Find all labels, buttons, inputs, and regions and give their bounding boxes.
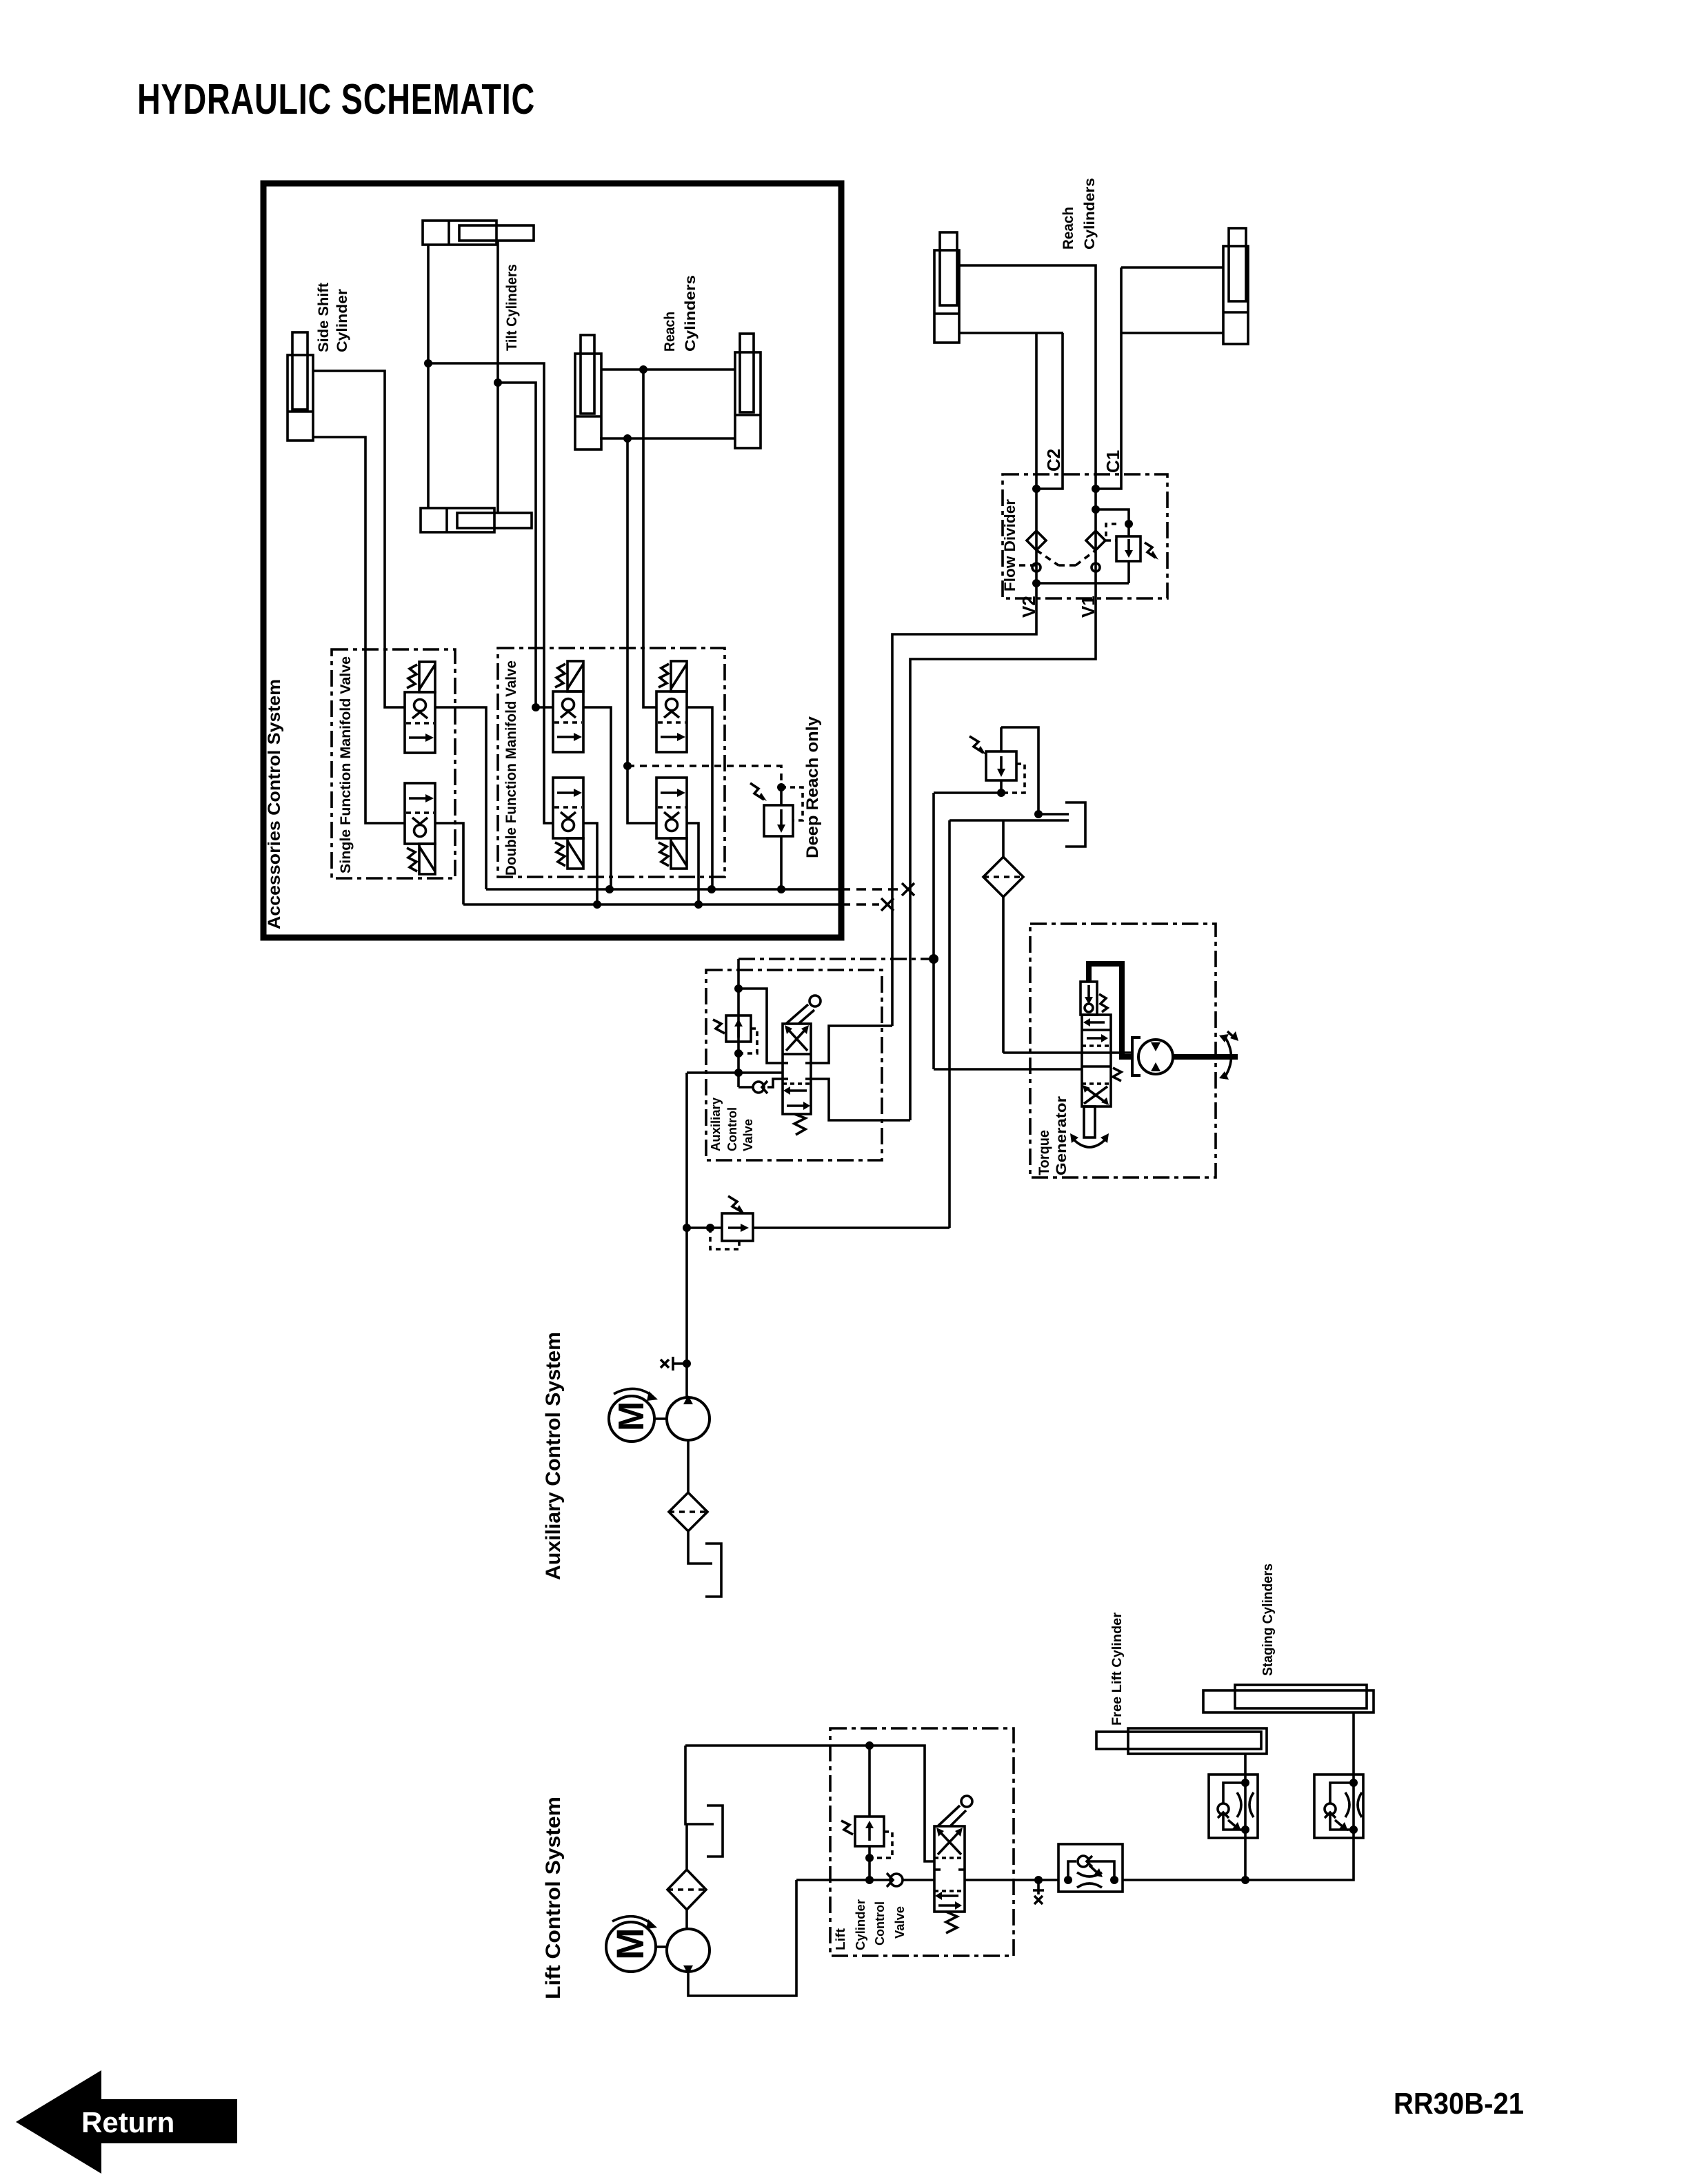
svg-text:Tilt Cylinders: Tilt Cylinders — [504, 264, 520, 351]
svg-text:Staging Cylinders: Staging Cylinders — [1260, 1564, 1276, 1676]
bus line A dashed tail — [841, 888, 900, 891]
wire relief to torque generator line — [932, 793, 935, 1069]
svg-text:Valve: Valve — [741, 1119, 755, 1151]
svg-text:Auxiliary: Auxiliary — [709, 1098, 723, 1151]
wire pump main vertical — [685, 1073, 688, 1397]
svg-text:Reach: Reach — [662, 312, 678, 352]
svg-text:Reach: Reach — [1061, 207, 1076, 250]
wire aux valve lower work port to V1 — [811, 1079, 910, 1120]
wire tilt rod side vertical — [496, 241, 499, 513]
electric motor M aux — [609, 1388, 667, 1442]
staging junction dots — [1064, 1779, 1358, 1884]
suction filter torque generator — [983, 820, 1023, 1053]
wire DF1 out to bus A — [583, 707, 611, 889]
wire reach lower ports — [600, 437, 735, 440]
orifice circle V2 — [1032, 563, 1041, 572]
wire right cyl top port — [1121, 266, 1223, 269]
reach cylinder top-right right unit — [1223, 228, 1248, 344]
svg-text:M: M — [612, 1402, 652, 1431]
wire side shift top port to single function valve 1 — [313, 371, 405, 707]
solenoid valve DF3 — [656, 661, 687, 752]
svg-text:Free Lift Cylinder: Free Lift Cylinder — [1110, 1612, 1125, 1726]
svg-text:Flow Divider: Flow Divider — [1001, 499, 1018, 591]
bus junction dots — [593, 762, 785, 909]
wire DF2 out to bus B — [583, 823, 597, 904]
wire reach lower to double function valve 4 — [627, 438, 656, 823]
Lift Cylinder Control Valve box — [830, 1728, 1014, 1956]
wire filter to pump lift — [685, 1910, 688, 1929]
suction filter lift — [667, 1824, 706, 1910]
wire pump suction — [687, 1440, 690, 1493]
solenoid valve DF2 — [553, 778, 583, 869]
wire right cyl bottom port — [1121, 332, 1223, 334]
wire free lift cylinder drop — [1244, 1754, 1247, 1775]
wire filter to tank aux — [688, 1531, 712, 1564]
steering rotation arrows — [1219, 1031, 1238, 1080]
torque generator spool valve — [1070, 1015, 1121, 1147]
thick supply line to motor — [1089, 964, 1132, 1057]
aux spool valve — [783, 995, 821, 1135]
svg-text:Cylinders: Cylinders — [1082, 178, 1098, 250]
solenoid valve DF1 — [553, 661, 583, 752]
Flow Divider box — [1003, 474, 1167, 598]
wire tank feed lower — [949, 819, 1069, 822]
lift relief valve — [841, 1746, 892, 1880]
wire reach upper ports — [601, 368, 735, 371]
wire lift main line left — [796, 1879, 890, 1881]
tank torque generator — [1065, 802, 1085, 847]
svg-text:Double Function Manifold Valve: Double Function Manifold Valve — [503, 660, 519, 876]
junction dots — [424, 359, 647, 711]
tank lift — [707, 1806, 723, 1857]
gauge port X aux — [661, 1357, 687, 1371]
reach cylinder left (in box) — [575, 335, 601, 449]
reach cylinder right (in box) — [735, 334, 761, 448]
wire relief top to tank — [1001, 727, 1038, 814]
svg-text:Torque: Torque — [1036, 1130, 1052, 1175]
Single Function Manifold Valve box — [332, 649, 455, 878]
wire relief output to return line — [753, 1226, 949, 1229]
wire aux valve upper work port to V2 — [811, 1026, 892, 1063]
svg-text:Single Function Manifold Valve: Single Function Manifold Valve — [338, 656, 354, 873]
bus line A — [486, 888, 841, 891]
wire tank feed upper — [1038, 813, 1069, 816]
check valve lift — [887, 1873, 903, 1887]
wire left cyl top port to C1 line — [959, 265, 1096, 598]
wire lift top line — [685, 1746, 934, 1861]
check valve diamond V1 — [1086, 531, 1105, 550]
middle junction dots — [997, 789, 1043, 818]
svg-text:Side Shift: Side Shift — [316, 283, 332, 352]
svg-text:Deep Reach only: Deep Reach only — [803, 716, 822, 858]
wire return line to bottom relief — [948, 820, 951, 1228]
wire main pressure line into aux valve — [687, 1071, 783, 1074]
gauge port X lift — [1033, 1880, 1044, 1904]
side shift cylinder — [288, 332, 313, 441]
wire middle relief horizontal — [934, 791, 1001, 794]
check-orifice box on lift line — [1058, 1844, 1123, 1892]
flow divider internal bottom line — [1036, 582, 1129, 585]
lift spool valve — [934, 1796, 972, 1933]
middle relief valve — [969, 727, 1025, 793]
svg-text:M: M — [608, 1928, 652, 1960]
flow regulator free lift — [1209, 1775, 1258, 1838]
motor port bracket — [1132, 1038, 1141, 1075]
tank aux — [705, 1544, 721, 1597]
wire aux box top dash-dot — [738, 958, 934, 960]
bottom relief valve aux — [687, 1196, 753, 1249]
flow divider relief valve — [1106, 524, 1158, 583]
svg-text:Cylinder: Cylinder — [334, 289, 350, 352]
suction filter aux — [669, 1493, 707, 1531]
deep reach relief valve — [750, 783, 803, 889]
aux relief valve — [713, 1015, 757, 1053]
wire C2 stub — [1036, 333, 1063, 489]
hydraulic pump lift — [667, 1929, 710, 1974]
staging cylinder — [1203, 1685, 1374, 1712]
wire aux valve pilot branch — [738, 989, 783, 1063]
svg-text:Control: Control — [725, 1107, 739, 1151]
plug X on bus B — [881, 898, 894, 911]
flow divider relief branch — [1096, 509, 1129, 536]
wire tilt cap line to double function valve 2 — [428, 363, 553, 823]
wire DF3 out to bus A — [686, 707, 712, 889]
tilt cylinder upper — [423, 221, 534, 245]
hydraulic motor torque generator — [1138, 1040, 1173, 1074]
solenoid valve DF4 — [656, 778, 687, 869]
wire side shift bottom port to single function valve 2 — [313, 437, 405, 823]
solenoid valve SF1 — [405, 662, 435, 753]
flow divider linkage dashes — [1014, 550, 1096, 565]
orifice circle V1 — [1092, 563, 1100, 572]
wire tilt cap side vertical — [427, 245, 430, 508]
wire pump outlet to main line — [688, 1880, 796, 1996]
thick steering shaft — [1173, 1054, 1238, 1060]
electric motor M lift — [606, 1917, 667, 1972]
wire filter to motor port — [1003, 1051, 1131, 1054]
svg-text:Lift Control System: Lift Control System — [542, 1797, 565, 1999]
svg-text:Cylinders: Cylinders — [683, 275, 699, 352]
dashed pilot wire to deep reach valve — [627, 766, 781, 787]
aux valve junction dots — [734, 954, 938, 1077]
bus line B dashed tail — [841, 903, 879, 906]
wire C1 stub vertical — [1096, 267, 1121, 489]
plug X on bus A — [902, 883, 914, 896]
wire check to valve — [903, 1879, 934, 1881]
wire reach upper to double function valve 3 — [643, 370, 656, 707]
torque generator check cartridge — [1081, 982, 1107, 1015]
svg-text:Return: Return — [81, 2106, 174, 2138]
aux pump junction dots — [683, 1224, 714, 1368]
wire SF1 out to bus A — [435, 707, 486, 889]
wire to torque generator valve left port — [934, 1068, 1082, 1071]
flow regulator staging — [1314, 1775, 1363, 1838]
svg-text:Valve: Valve — [893, 1906, 907, 1939]
wire V2 exit run to auxiliary valve — [892, 598, 1036, 1026]
wire lift line to staging riser — [1123, 1838, 1354, 1880]
flow divider junction dots — [1032, 485, 1133, 587]
free lift cylinder — [1096, 1728, 1267, 1754]
wire aux relief vertical — [737, 959, 740, 1087]
pilot check valve — [738, 1079, 783, 1093]
wire lift tank feed — [685, 1746, 714, 1824]
wire V2 main line — [1035, 333, 1038, 598]
wire DF4 out to bus B — [686, 823, 699, 904]
Accessories Control System box — [263, 183, 841, 938]
Auxiliary Control Valve box — [706, 970, 882, 1160]
wire V1 exit run to auxiliary valve — [910, 598, 1096, 1120]
check valve diamond V2 — [1027, 531, 1046, 550]
svg-text:C1: C1 — [1103, 450, 1123, 473]
svg-text:Accessories Control System: Accessories Control System — [265, 679, 284, 929]
Double Function Manifold Valve box — [498, 648, 725, 877]
wire tilt rod line to double function valve 1 — [498, 383, 553, 707]
bus line B — [463, 903, 841, 906]
hydraulic pump aux — [667, 1395, 710, 1440]
wire SF2 out to bus B — [435, 823, 463, 904]
svg-text:HYDRAULIC SCHEMATIC: HYDRAULIC SCHEMATIC — [137, 76, 535, 123]
wire flow regulator to lift line — [1244, 1838, 1247, 1880]
wire lift main line right — [965, 1879, 1058, 1881]
svg-text:Auxiliary Control System: Auxiliary Control System — [542, 1332, 565, 1580]
svg-text:RR30B-21: RR30B-21 — [1394, 2087, 1524, 2121]
Return button arrow — [16, 2070, 237, 2174]
reach cylinder top-right left unit — [934, 232, 959, 343]
lift junction dots — [865, 1741, 1043, 1884]
svg-text:C2: C2 — [1043, 449, 1064, 472]
svg-text:Generator: Generator — [1054, 1096, 1069, 1175]
tilt cylinder lower — [421, 508, 532, 532]
solenoid valve SF2 — [405, 783, 435, 874]
Torque Generator box — [1030, 924, 1216, 1177]
wire left cyl bottom port to V2 line — [959, 332, 1063, 334]
wire staging cylinder drop — [1352, 1712, 1355, 1775]
svg-text:Cylinder: Cylinder — [854, 1899, 867, 1950]
svg-text:Lift: Lift — [834, 1928, 847, 1950]
svg-text:Control: Control — [873, 1901, 887, 1945]
